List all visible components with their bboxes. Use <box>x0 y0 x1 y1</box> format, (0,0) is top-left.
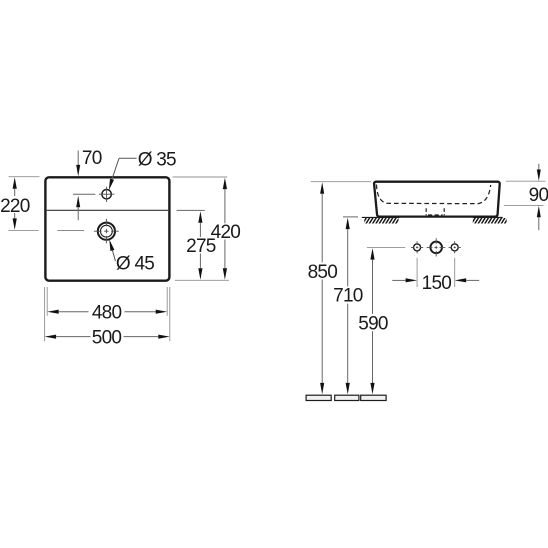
label 710 <box>333 286 363 307</box>
counter surface line right <box>473 216 503 218</box>
svg-text:90: 90 <box>529 185 548 206</box>
dim 420 top extension <box>173 176 228 178</box>
svg-text:480: 480 <box>92 303 122 324</box>
dimension 70 leader lower <box>76 196 80 221</box>
faucet hole Ø35 <box>102 190 111 199</box>
dim 850 line and arrows <box>320 182 324 394</box>
dim 500 line and arrows <box>45 335 170 339</box>
label 420 <box>211 222 241 243</box>
drain centerline cross <box>94 219 119 244</box>
dim 90 upper arrow <box>537 164 541 181</box>
left fixing hole <box>414 244 421 251</box>
dim 500 left extension <box>44 287 46 341</box>
drain hole side cross <box>427 238 446 256</box>
dim 220 bottom extension <box>9 230 39 232</box>
counter hatch left <box>364 218 398 224</box>
label 90 <box>529 185 548 206</box>
dim 90 bottom extension <box>504 204 544 206</box>
dim 480 line and arrows <box>47 310 167 314</box>
svg-text:500: 500 <box>92 328 122 349</box>
svg-text:710: 710 <box>333 286 363 307</box>
drain hole Ø45 outer <box>98 223 115 240</box>
label 275 <box>186 236 216 257</box>
label Ø 35 leader <box>109 158 137 190</box>
svg-text:Ø 35: Ø 35 <box>138 149 176 170</box>
dim 710 tick at counter <box>343 216 358 218</box>
label 480 <box>92 303 122 324</box>
left fixing hole cross <box>411 241 423 254</box>
dim 150 right extension <box>454 258 456 287</box>
svg-text:70: 70 <box>82 148 102 169</box>
basin side-view outline <box>374 182 500 217</box>
dim 90 top extension <box>506 180 546 182</box>
svg-text:850: 850 <box>308 262 338 283</box>
basin inner bowl hidden line <box>376 185 490 204</box>
label 220 <box>0 196 30 217</box>
dim 150 line and arrows <box>392 278 479 282</box>
svg-text:220: 220 <box>0 196 30 217</box>
dim 850 top extension <box>311 181 371 183</box>
dimension 70 tick at hole centre <box>73 193 95 195</box>
drain hidden lines <box>426 208 444 215</box>
dim 420 line and arrows <box>223 178 227 280</box>
svg-text:275: 275 <box>186 236 216 257</box>
dim 590 reference line <box>367 246 406 248</box>
dim 150 left extension <box>416 258 418 287</box>
dimension 70 leader upper <box>76 151 80 177</box>
floor pad middle <box>335 395 359 400</box>
drain horizontal centerline <box>57 230 84 232</box>
svg-text:590: 590 <box>358 314 388 335</box>
dim 420 bottom extension <box>175 279 229 281</box>
label Ø 35 <box>138 149 176 170</box>
svg-text:Ø 45: Ø 45 <box>116 254 154 275</box>
basin top-view outline <box>45 177 169 280</box>
dim 220 top extension <box>9 176 40 178</box>
dim 90 lower arrow <box>537 206 541 230</box>
dim 710 line and arrows <box>346 218 350 395</box>
counter surface line left <box>362 216 400 218</box>
dim 275 tick at ledge <box>177 209 205 211</box>
label 150 <box>422 273 452 294</box>
counter hatch right <box>473 218 507 224</box>
drain hole side view <box>430 242 442 254</box>
drain hole Ø45 inner <box>101 225 113 237</box>
dim 275 line and arrows <box>198 211 202 280</box>
dim 480 left extension <box>46 287 48 316</box>
dim 590 line and arrows <box>370 248 374 394</box>
label Ø 45 leader <box>109 239 115 261</box>
dim 480 right extension <box>166 287 168 316</box>
right fixing hole cross <box>449 241 461 254</box>
floor pad left <box>306 395 331 400</box>
label 850 <box>308 262 338 283</box>
label 70 <box>82 148 102 169</box>
svg-text:150: 150 <box>422 273 452 294</box>
floor pad right <box>361 395 386 400</box>
label 500 <box>92 328 122 349</box>
basin ledge line <box>47 209 168 211</box>
label Ø 45 <box>116 254 154 275</box>
right fixing hole <box>451 244 458 251</box>
faucet hole centerline cross <box>99 187 114 202</box>
dim 220 line and arrows <box>13 177 17 230</box>
label 590 <box>358 314 388 335</box>
dim 500 right extension <box>169 287 171 341</box>
